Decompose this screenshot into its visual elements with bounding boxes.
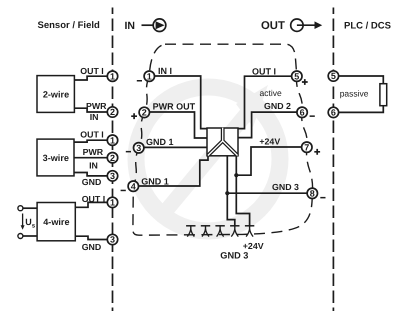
wire OUT I: converter to terminal 5 bbox=[238, 76, 297, 128]
svg-text:6: 6 bbox=[300, 108, 305, 118]
polarity plus terminal 5 bbox=[302, 79, 308, 85]
wire 2-wire OUT I to terminal 1 bbox=[74, 76, 112, 80]
svg-text:2: 2 bbox=[110, 107, 115, 117]
svg-text:GND 3: GND 3 bbox=[220, 251, 248, 261]
svg-text:GND 3: GND 3 bbox=[272, 182, 299, 192]
svg-text:PWR OUT: PWR OUT bbox=[153, 102, 196, 112]
watermark bbox=[136, 85, 280, 231]
svg-text:OUT I: OUT I bbox=[82, 194, 105, 204]
svg-text:1: 1 bbox=[147, 71, 152, 81]
wire +24V: converter branch to terminal 7 bbox=[236, 147, 306, 175]
svg-text:4: 4 bbox=[131, 181, 136, 191]
polarity plus terminal 7 bbox=[314, 149, 320, 155]
wire converter pin to +24V bus fork bbox=[236, 156, 249, 226]
svg-text:U: U bbox=[25, 217, 32, 227]
bus contact fork 3 bbox=[215, 226, 224, 237]
wire supply lower to 4-wire box bbox=[23, 235, 37, 237]
device terminal 4 GND 1 bbox=[128, 181, 138, 191]
device terminal 8 GND 3 bbox=[307, 188, 317, 198]
svg-text:4-wire: 4-wire bbox=[43, 217, 69, 227]
svg-text:2: 2 bbox=[142, 108, 147, 118]
wire GND 1: terminal 3 to converter bbox=[139, 146, 207, 148]
bus contact fork 4 (GND 3) bbox=[230, 226, 239, 237]
device outline dashed bbox=[133, 44, 313, 235]
label Us with arrow bbox=[21, 214, 36, 230]
svg-text:3: 3 bbox=[110, 235, 115, 245]
converter U1 (isolating DC/DC) bbox=[207, 128, 238, 156]
wire GND 1: terminal 4 to converter bottom-left bbox=[133, 156, 208, 186]
wire 4-wire OUT I to terminal 1 bbox=[75, 202, 112, 207]
device terminal 6 GND 2 bbox=[297, 107, 307, 117]
PLC boundary dashed line (OUT | PLC/DCS) bbox=[332, 8, 334, 312]
svg-text:GND: GND bbox=[82, 242, 102, 252]
svg-text:1: 1 bbox=[110, 135, 115, 145]
PLC terminal 5 bbox=[328, 71, 338, 81]
polarity minus terminal 4 bbox=[121, 190, 126, 192]
device terminal 2 PWR OUT bbox=[139, 107, 149, 117]
wire GND 2: converter to terminal 6 bbox=[238, 112, 302, 138]
svg-text:GND 2: GND 2 bbox=[264, 101, 291, 111]
svg-text:7: 7 bbox=[304, 142, 309, 152]
svg-text:active: active bbox=[260, 88, 282, 98]
wire PLC loop with load resistor bbox=[338, 76, 383, 112]
supply terminal upper bbox=[18, 206, 23, 211]
svg-text:+24V: +24V bbox=[259, 137, 280, 147]
polarity minus terminal 3 bbox=[126, 151, 131, 153]
svg-text:3: 3 bbox=[136, 143, 141, 153]
device terminal 7 +24V bbox=[302, 142, 312, 152]
svg-text:3-wire: 3-wire bbox=[43, 153, 69, 163]
wire IN I: terminal 1 to converter bbox=[149, 76, 207, 129]
header label OUT with arrow icon bbox=[261, 19, 322, 32]
bus contact fork 2 bbox=[201, 226, 210, 237]
field terminal 1 (3-wire) bbox=[107, 135, 117, 145]
bus contact fork 5 (+24V) bbox=[245, 226, 254, 237]
svg-text:GND 1: GND 1 bbox=[141, 176, 169, 186]
field terminal 1 (2-wire) bbox=[107, 71, 117, 81]
svg-text:Sensor / Field: Sensor / Field bbox=[38, 20, 100, 31]
device terminal 3 GND 1 bbox=[134, 143, 144, 153]
svg-text:1: 1 bbox=[110, 198, 115, 208]
bus contact fork 1 bbox=[186, 226, 195, 237]
svg-text:IN: IN bbox=[125, 20, 136, 32]
svg-text:IN: IN bbox=[90, 112, 99, 122]
polarity minus terminal 1 bbox=[137, 80, 142, 82]
svg-text:OUT I: OUT I bbox=[252, 66, 276, 76]
wire supply upper to 4-wire box bbox=[23, 207, 37, 209]
junction +24V bbox=[234, 173, 238, 177]
svg-text:s: s bbox=[32, 223, 36, 230]
supply terminal lower bbox=[18, 234, 23, 239]
svg-text:IN I: IN I bbox=[158, 66, 172, 76]
wire 2-wire PWR IN to terminal 2 bbox=[74, 108, 112, 112]
svg-text:IN: IN bbox=[89, 160, 98, 170]
svg-text:GND: GND bbox=[82, 177, 102, 187]
resistor load bbox=[380, 84, 387, 106]
field terminal 2 (3-wire) bbox=[107, 153, 117, 163]
svg-text:5: 5 bbox=[331, 71, 336, 81]
sensor box 3-wire bbox=[37, 139, 74, 176]
field terminal 3 (4-wire) bbox=[107, 234, 117, 244]
sensor box 2-wire bbox=[37, 76, 74, 113]
svg-text:OUT I: OUT I bbox=[80, 66, 103, 76]
svg-text:PWR: PWR bbox=[83, 147, 104, 157]
wire PWR OUT: terminal 2 to converter bbox=[144, 112, 207, 138]
polarity minus terminal 8 bbox=[320, 197, 325, 199]
svg-text:PLC / DCS: PLC / DCS bbox=[344, 20, 391, 31]
svg-text:8: 8 bbox=[310, 189, 315, 199]
field terminal 1 (4-wire) bbox=[107, 197, 117, 207]
field boundary dashed line (Sensor/Field | IN) bbox=[112, 8, 114, 312]
wire 4-wire GND to terminal 3 bbox=[75, 236, 112, 239]
svg-text:GND 1: GND 1 bbox=[146, 137, 174, 147]
field terminal 3 (3-wire) bbox=[107, 171, 117, 181]
polarity plus terminal 2 bbox=[131, 113, 137, 119]
svg-text:OUT: OUT bbox=[261, 20, 285, 32]
svg-text:2: 2 bbox=[110, 153, 115, 163]
wire converter pin to GND 3 bus fork bbox=[227, 156, 235, 226]
device terminal 1 IN I bbox=[144, 71, 154, 81]
wire 3-wire PWR IN to terminal 2 bbox=[74, 157, 113, 159]
wire GND 3: junction to terminal 8 bbox=[227, 192, 312, 194]
field terminal 2 (2-wire) bbox=[107, 107, 117, 117]
svg-text:PWR: PWR bbox=[86, 101, 107, 111]
svg-text:5: 5 bbox=[294, 71, 299, 81]
svg-text:3: 3 bbox=[110, 171, 115, 181]
svg-text:passive: passive bbox=[340, 88, 369, 98]
wire 3-wire OUT I to terminal 1 bbox=[74, 140, 113, 142]
polarity minus terminal 6 bbox=[310, 115, 315, 117]
svg-text:1: 1 bbox=[110, 71, 115, 81]
device terminal 5 OUT I bbox=[292, 71, 302, 81]
junction GND 3 bbox=[225, 191, 229, 195]
svg-text:6: 6 bbox=[331, 108, 336, 118]
header label IN with arrow icon bbox=[125, 19, 166, 32]
sensor box 4-wire bbox=[37, 203, 75, 241]
PLC terminal 6 bbox=[328, 107, 338, 117]
svg-text:2-wire: 2-wire bbox=[43, 89, 69, 99]
svg-text:OUT I: OUT I bbox=[80, 129, 103, 139]
wire 3-wire GND to terminal 3 bbox=[74, 173, 113, 176]
